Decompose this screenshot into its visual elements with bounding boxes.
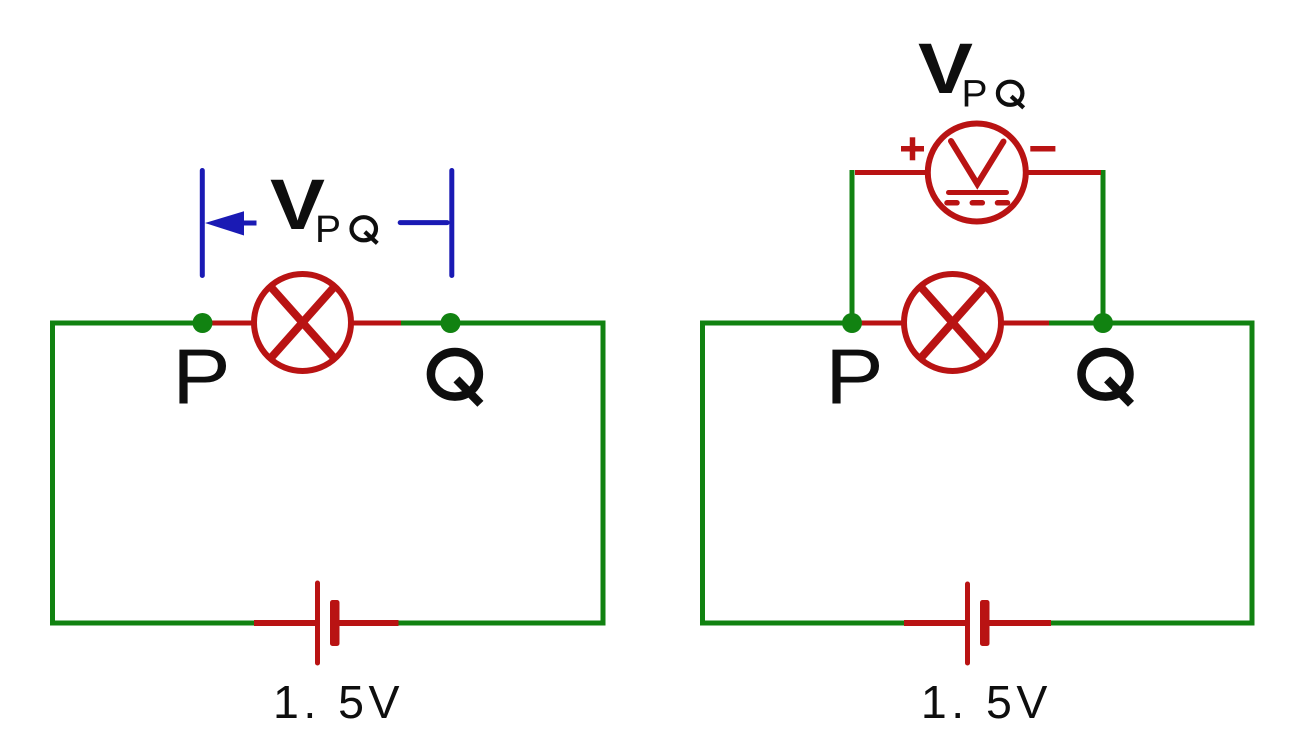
label Q (left): ring: [431, 352, 479, 397]
blue arrow pointing left: [205, 211, 257, 235]
wire: right loop right vertical: [1250, 321, 1255, 626]
svg-text:P: P: [825, 333, 883, 421]
wire: right loop left vertical: [700, 321, 705, 626]
label Q (right): tail: [1107, 379, 1131, 403]
label: + terminal: [901, 137, 924, 160]
blue tick at Q: [449, 171, 454, 276]
wire: left loop left vertical: [50, 321, 55, 626]
wire: right loop bottom-left green segment: [700, 621, 906, 626]
node Q (left): [441, 313, 461, 333]
wire: green vertical node Q to voltmeter: [1101, 170, 1106, 323]
wire: red voltmeter right lead: [1025, 170, 1101, 175]
label Q (left): tail: [457, 379, 481, 403]
wire: right loop bottom-right green segment: [1049, 621, 1255, 626]
battery B1: [254, 583, 399, 663]
wire: left loop top-left green segment: [50, 321, 203, 326]
wire: left loop bottom-left green segment: [50, 621, 256, 626]
wire: left loop right vertical: [601, 321, 606, 626]
wire: right loop top-left green segment: [700, 321, 852, 326]
wire: left loop top-right green segment: [401, 321, 606, 326]
wire: red stub lamp to right: [351, 321, 401, 326]
node Q (right): [1093, 313, 1113, 333]
battery B2: [904, 584, 1051, 663]
voltmeter M1: [928, 124, 1026, 222]
wire: green vertical node P to voltmeter: [850, 170, 855, 323]
svg-text:P: P: [315, 209, 341, 251]
label: - terminal: [1030, 146, 1055, 152]
blue tick at P: [200, 171, 205, 276]
svg-text:P: P: [962, 74, 988, 116]
lamp L1 (circle with X): [254, 274, 351, 371]
blue dash right of label: [400, 220, 447, 225]
node P (right): [842, 313, 862, 333]
wire: red stub node P to lamp (right): [852, 321, 904, 326]
svg-text:1. 5V: 1. 5V: [273, 676, 404, 728]
svg-text:P: P: [172, 333, 230, 421]
wire: left loop bottom-right green segment: [397, 621, 606, 626]
svg-text:1. 5V: 1. 5V: [921, 676, 1052, 728]
wire: right loop top-right green segment: [1049, 321, 1255, 326]
label Q (right): ring: [1082, 352, 1130, 397]
wire: red voltmeter left lead: [855, 170, 929, 175]
lamp L2 (circle with X): [904, 274, 1001, 371]
node P (left): [193, 313, 213, 333]
wire: red stub lamp to right (right circuit): [1001, 321, 1049, 326]
wire: red stub node P to lamp: [203, 321, 254, 326]
